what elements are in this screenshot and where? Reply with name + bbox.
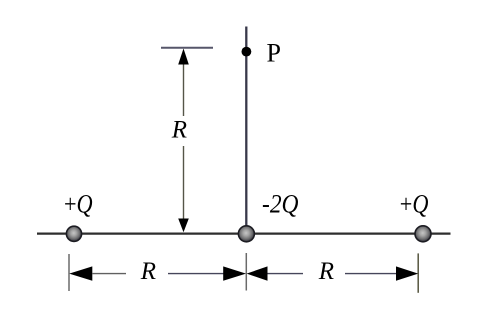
dimension line R vertical lower segment xyxy=(183,146,185,225)
dimension line R vertical upper segment xyxy=(183,62,185,116)
dimension line left span segment b xyxy=(168,273,224,275)
svg-text:+Q: +Q xyxy=(400,190,429,219)
tick right bottom dimension xyxy=(417,253,419,292)
arrowhead left (left span) xyxy=(69,266,92,280)
charge Q3 +Q right ball xyxy=(415,226,431,242)
wire horizontal baseline xyxy=(37,233,451,235)
wire vertical line through center xyxy=(245,27,247,234)
charge Q2 -2Q center ball xyxy=(238,226,254,242)
dimension line left span segment a xyxy=(92,273,126,275)
svg-text:P: P xyxy=(267,39,281,68)
tick left bottom dimension xyxy=(68,254,70,291)
arrowhead right (right span) xyxy=(396,266,418,280)
charge Q1 +Q left ball xyxy=(66,226,81,241)
dimension line right span segment a xyxy=(268,273,304,275)
arrowhead right (left span) xyxy=(223,266,246,280)
svg-text:R: R xyxy=(318,258,334,285)
svg-text:-2Q: -2Q xyxy=(262,190,299,219)
svg-text:R: R xyxy=(171,116,187,143)
tick center bottom dimension xyxy=(245,253,247,291)
arrowhead down vertical dimension xyxy=(178,219,189,233)
tick top of vertical dimension xyxy=(161,47,213,49)
dimension line right span segment b xyxy=(345,273,397,275)
svg-text:R: R xyxy=(140,258,156,285)
node P dot xyxy=(242,47,252,57)
arrowhead left (right span) xyxy=(247,266,268,280)
svg-text:+Q: +Q xyxy=(64,190,93,219)
arrowhead up vertical dimension xyxy=(178,49,189,65)
